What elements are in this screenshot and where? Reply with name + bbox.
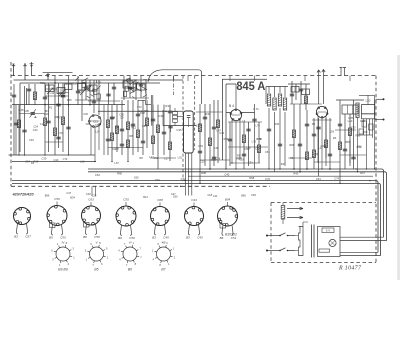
wire <box>45 88 57 90</box>
capacitor <box>131 124 135 126</box>
svg-text:C45: C45 <box>29 138 34 142</box>
small boxes <box>359 121 373 134</box>
svg-text:C11: C11 <box>93 119 98 123</box>
wire <box>142 100 144 155</box>
wire <box>135 80 137 100</box>
wire <box>336 99 364 101</box>
svg-text:R40: R40 <box>293 171 298 175</box>
wire <box>81 80 83 121</box>
resistor <box>208 138 211 146</box>
svg-text:C58: C58 <box>94 235 100 239</box>
wire <box>314 161 340 163</box>
wire <box>121 97 149 99</box>
trimmer arrow <box>47 88 53 94</box>
svg-text:C54: C54 <box>95 173 100 177</box>
svg-text:R1: R1 <box>49 105 53 109</box>
junction <box>54 82 56 84</box>
capacitor <box>66 127 70 129</box>
svg-text:B7: B7 <box>161 268 165 272</box>
resistor <box>242 135 245 143</box>
svg-text:C30: C30 <box>219 131 224 135</box>
wire heater bus <box>188 175 373 177</box>
svg-text:R42: R42 <box>205 112 211 116</box>
capacitor <box>290 94 294 96</box>
wire <box>290 157 312 159</box>
svg-text:C43: C43 <box>191 198 197 202</box>
capacitor <box>61 95 65 97</box>
svg-text:B5: B5 <box>49 236 53 240</box>
svg-text:R86: R86 <box>289 143 294 147</box>
svg-text:C95: C95 <box>24 109 29 113</box>
wire <box>288 83 310 85</box>
rectifier 5V box <box>322 228 334 233</box>
svg-text:L33: L33 <box>196 124 201 128</box>
svg-text:845 A: 845 A <box>236 80 266 93</box>
resistor R1 <box>17 120 20 128</box>
capacitor <box>46 121 50 123</box>
wire tube B3 leads <box>91 126 99 162</box>
svg-text:C94: C94 <box>25 160 30 164</box>
wire <box>107 105 109 155</box>
wire <box>75 99 101 101</box>
tube socket S6 <box>185 203 204 236</box>
capacitor <box>351 157 355 159</box>
svg-text:R31: R31 <box>165 104 171 108</box>
mains lead N <box>266 250 280 252</box>
wire <box>171 108 176 132</box>
svg-text:C72: C72 <box>181 177 186 181</box>
svg-text:R8: R8 <box>237 154 241 158</box>
resistor <box>151 136 154 144</box>
resistor R ballast <box>281 206 285 220</box>
tube socket S2 <box>47 202 67 236</box>
tube socket S5 <box>151 203 170 236</box>
svg-text:L45: L45 <box>115 147 120 151</box>
coil unit <box>89 85 97 91</box>
capacitor <box>242 154 246 156</box>
tube base view B3-B9 <box>51 241 75 267</box>
wire <box>313 118 315 169</box>
wire <box>300 81 302 104</box>
svg-text:C89: C89 <box>73 82 78 86</box>
svg-text:L67: L67 <box>115 161 120 165</box>
electrolytic can B5 <box>184 111 194 153</box>
capacitor <box>278 144 282 146</box>
resistor <box>106 120 109 128</box>
wire <box>91 186 93 196</box>
tube base view B6 <box>118 241 142 267</box>
capacitor <box>112 87 116 89</box>
capacitor <box>312 134 316 136</box>
resistor group <box>267 94 270 106</box>
wire <box>34 84 36 105</box>
svg-text:R8: R8 <box>129 134 133 138</box>
capacitor <box>338 124 342 126</box>
wire <box>28 84 30 105</box>
wire <box>59 92 69 94</box>
svg-text:C39: C39 <box>42 157 47 161</box>
wire dashdot screen <box>173 76 175 95</box>
wire <box>111 105 113 162</box>
tube socket S4 <box>116 202 136 236</box>
junction <box>68 104 70 106</box>
wire <box>199 104 201 183</box>
svg-text:L20: L20 <box>366 99 371 103</box>
resistor <box>145 118 148 126</box>
capacitor <box>305 124 309 126</box>
wire <box>358 95 375 140</box>
junction <box>44 104 46 106</box>
wire <box>305 84 307 110</box>
svg-text:C28: C28 <box>92 193 97 197</box>
svg-text:C63: C63 <box>88 198 94 202</box>
wire <box>103 105 105 155</box>
svg-text:C43: C43 <box>61 95 66 99</box>
capacitor <box>162 132 166 134</box>
wire <box>93 80 95 113</box>
wire <box>339 100 341 183</box>
wire <box>129 76 131 98</box>
svg-text:C47: C47 <box>66 191 71 195</box>
capacitor <box>246 129 250 131</box>
wire tube B6 leads <box>318 117 326 170</box>
capacitor <box>92 101 96 103</box>
svg-text:C72: C72 <box>265 177 270 181</box>
svg-text:R50: R50 <box>239 157 244 161</box>
shield dashed left <box>182 76 184 181</box>
svg-text:B10352: B10352 <box>225 233 237 237</box>
svg-text:C51: C51 <box>231 236 237 240</box>
wire <box>169 105 171 161</box>
svg-text:R56: R56 <box>345 140 350 144</box>
svg-text:L53: L53 <box>314 152 319 156</box>
label scatter above sockets <box>45 191 257 200</box>
svg-text:R8: R8 <box>139 156 143 160</box>
tube B4 <box>230 109 242 121</box>
connector stub 2 <box>375 119 383 121</box>
capacitor <box>56 104 60 106</box>
wire <box>349 114 351 166</box>
wire ground bus 2 <box>12 183 381 255</box>
junction <box>293 168 295 170</box>
coil unit <box>342 105 358 114</box>
svg-text:L16: L16 <box>80 160 85 164</box>
wire chassis bus A <box>9 154 96 156</box>
wire <box>196 111 222 113</box>
capacitor <box>136 114 140 116</box>
resistor <box>168 142 171 150</box>
wire <box>77 76 79 105</box>
resistor <box>136 130 139 138</box>
svg-text:C33: C33 <box>54 158 59 162</box>
capacitor <box>168 126 172 128</box>
capacitor <box>128 87 132 89</box>
capacitor C3 <box>14 123 18 125</box>
svg-text:C37: C37 <box>164 157 169 161</box>
svg-text:C87: C87 <box>80 89 85 93</box>
svg-text:R81: R81 <box>55 115 60 119</box>
capacitor <box>106 94 110 96</box>
capacitor <box>212 127 216 129</box>
resistor <box>348 128 351 136</box>
wire <box>299 104 301 172</box>
tube base view B5 <box>85 241 109 267</box>
svg-text:L 71: L 71 <box>253 107 259 111</box>
wire <box>290 103 322 105</box>
antenna terminal A2 <box>23 64 26 80</box>
svg-text:R19: R19 <box>34 160 39 164</box>
resistor <box>61 117 64 125</box>
wire top frame 1 <box>14 79 184 81</box>
svg-text:B5: B5 <box>94 268 98 272</box>
svg-text:C9: C9 <box>59 131 63 135</box>
variable capacitor C1 <box>19 109 44 118</box>
svg-text:C32: C32 <box>255 146 260 150</box>
resistor <box>356 103 359 118</box>
capacitor <box>316 127 320 129</box>
mains lead L <box>266 235 280 237</box>
capacitor <box>252 119 256 121</box>
wire <box>89 80 91 105</box>
wire <box>306 110 308 169</box>
capacitor <box>56 137 60 139</box>
svg-text:C53: C53 <box>265 150 270 154</box>
svg-text:C68: C68 <box>157 198 163 202</box>
tube socket S7 <box>218 202 238 236</box>
wire <box>291 81 293 104</box>
capacitor <box>298 144 302 146</box>
svg-text:R61: R61 <box>274 122 280 126</box>
svg-text:C55: C55 <box>60 236 66 240</box>
wire mains tap <box>359 95 375 169</box>
svg-text:L13: L13 <box>318 146 323 150</box>
resistor <box>126 122 129 130</box>
wire <box>85 80 87 100</box>
wire <box>177 115 184 117</box>
resistor <box>156 125 159 133</box>
wire <box>217 100 219 163</box>
svg-text:C64: C64 <box>110 116 115 120</box>
svg-text:B6: B6 <box>118 236 122 240</box>
wire <box>95 186 97 196</box>
resistor <box>338 142 341 150</box>
wire <box>16 105 25 155</box>
capacitor <box>198 151 202 153</box>
svg-text:C50: C50 <box>54 197 60 201</box>
svg-text:C30: C30 <box>351 126 356 130</box>
wire <box>282 203 284 225</box>
svg-text:L91: L91 <box>178 156 183 160</box>
svg-text:R98: R98 <box>249 176 254 180</box>
wire <box>200 159 230 161</box>
wire <box>325 118 327 166</box>
wire <box>137 100 139 152</box>
wire <box>204 104 206 166</box>
wire <box>150 157 176 159</box>
wire top drops <box>174 76 351 81</box>
svg-text:B3-B9: B3-B9 <box>58 268 68 272</box>
wire PSU out 4 <box>340 255 381 257</box>
coil unit <box>302 89 310 95</box>
svg-text:R47: R47 <box>281 162 286 166</box>
coil unit <box>291 87 299 93</box>
resistor <box>216 120 219 128</box>
transformer core <box>311 225 313 258</box>
svg-text:C54: C54 <box>155 178 160 182</box>
svg-text:C52: C52 <box>153 156 158 160</box>
resistor <box>292 130 295 138</box>
resistor <box>312 150 315 158</box>
svg-text:B 4: B 4 <box>229 104 234 108</box>
trimmer arrow <box>80 89 86 95</box>
svg-text:R12: R12 <box>131 125 136 129</box>
wire <box>318 118 320 176</box>
wire <box>340 154 366 156</box>
heater winding box <box>319 249 330 252</box>
resistor <box>126 140 129 148</box>
svg-text:B12: B12 <box>143 195 148 199</box>
svg-text:C11: C11 <box>213 194 218 198</box>
label row <box>95 171 366 182</box>
wire AVC bus right <box>226 112 255 114</box>
wire oscillator loop <box>148 70 202 104</box>
wire <box>358 135 367 172</box>
tube base view B7 <box>152 241 176 267</box>
coil unit <box>46 85 55 92</box>
capacitor <box>141 141 145 143</box>
wire <box>45 141 63 143</box>
coil unit <box>57 88 65 94</box>
svg-text:B90: B90 <box>241 193 246 197</box>
capacitor <box>203 117 207 119</box>
wire <box>254 104 256 169</box>
transformer secondary <box>318 227 341 257</box>
chassis dashed border left <box>10 62 12 186</box>
pickup terminals <box>340 68 347 76</box>
wire vertical pair <box>151 95 153 126</box>
wire <box>146 100 148 148</box>
svg-text:C32: C32 <box>200 159 205 163</box>
svg-text:C65: C65 <box>134 176 139 180</box>
capacitor <box>299 89 303 91</box>
resistor <box>33 92 36 100</box>
svg-text:R75: R75 <box>256 137 261 141</box>
wire AVC bus <box>12 104 125 106</box>
wire <box>295 84 297 100</box>
capacitor <box>84 87 88 89</box>
svg-text:C8: C8 <box>120 115 124 119</box>
svg-text:R65: R65 <box>40 81 45 85</box>
wire ground bus 1 <box>12 181 378 253</box>
svg-text:L70: L70 <box>255 124 260 128</box>
svg-text:C78: C78 <box>348 116 353 120</box>
wire tube B4 leads <box>232 120 240 170</box>
wire AVC bus mid <box>98 110 184 112</box>
ground symbol <box>30 62 34 76</box>
wire <box>54 76 56 155</box>
wire top frame 3 <box>24 86 26 118</box>
wire <box>213 100 215 166</box>
coil unit <box>123 81 133 88</box>
wire <box>145 80 147 100</box>
wire <box>163 125 197 127</box>
svg-text:C27: C27 <box>171 192 176 196</box>
capacitor <box>228 139 232 141</box>
svg-text:L73: L73 <box>137 105 142 109</box>
capacitor <box>110 117 114 119</box>
svg-text:C45: C45 <box>163 236 169 240</box>
wire can B5 leads <box>186 153 192 196</box>
svg-text:B3: B3 <box>152 236 156 240</box>
wire <box>162 110 164 126</box>
junction <box>225 168 226 169</box>
antenna terminal A1 <box>12 64 15 76</box>
coil assembly <box>75 77 101 99</box>
junction <box>366 168 367 169</box>
svg-text:4B: 4B <box>162 241 166 245</box>
wire <box>88 100 120 102</box>
svg-text:R26: R26 <box>44 112 49 116</box>
wire <box>248 122 250 166</box>
wire <box>140 76 142 98</box>
svg-text:R60: R60 <box>117 171 122 175</box>
svg-text:R4: R4 <box>333 136 337 140</box>
svg-text:R26: R26 <box>357 145 362 149</box>
svg-text:C40: C40 <box>213 146 219 150</box>
svg-text:C45: C45 <box>197 236 203 240</box>
svg-text:C84: C84 <box>86 122 91 126</box>
capacitor <box>43 97 47 99</box>
svg-text:R 10477: R 10477 <box>338 265 362 272</box>
wire <box>228 146 268 148</box>
svg-text:B5: B5 <box>186 236 190 240</box>
svg-text:L69: L69 <box>246 146 251 150</box>
wire output section frame <box>222 79 267 160</box>
capacitor <box>76 91 80 93</box>
svg-text:B6: B6 <box>83 235 87 239</box>
wire <box>62 83 64 152</box>
svg-text:R76: R76 <box>87 84 92 88</box>
svg-text:C51: C51 <box>198 144 203 148</box>
junction <box>165 111 166 112</box>
capacitor <box>120 144 124 146</box>
resistor <box>257 145 260 153</box>
resistor stack <box>173 112 178 123</box>
wire <box>358 134 373 136</box>
junction <box>89 104 91 106</box>
capacitor <box>343 149 347 151</box>
svg-text:C74: C74 <box>63 157 68 161</box>
wire <box>132 100 134 155</box>
svg-text:R48: R48 <box>140 111 145 115</box>
wire <box>26 88 28 105</box>
wire <box>349 140 351 163</box>
chassis dashed border bottom <box>11 185 270 187</box>
wire <box>45 95 69 97</box>
trimmer arrow <box>59 90 65 96</box>
wire <box>258 122 260 163</box>
coil unit <box>78 84 87 91</box>
wire <box>229 122 231 166</box>
svg-text:C59: C59 <box>329 129 334 133</box>
wire <box>68 76 70 155</box>
svg-text:C35: C35 <box>176 128 182 132</box>
svg-text:C51: C51 <box>248 161 253 165</box>
capacitor <box>27 89 31 91</box>
mains connector <box>376 98 384 100</box>
svg-text:B34: B34 <box>70 195 75 199</box>
svg-text:B96: B96 <box>45 194 50 198</box>
